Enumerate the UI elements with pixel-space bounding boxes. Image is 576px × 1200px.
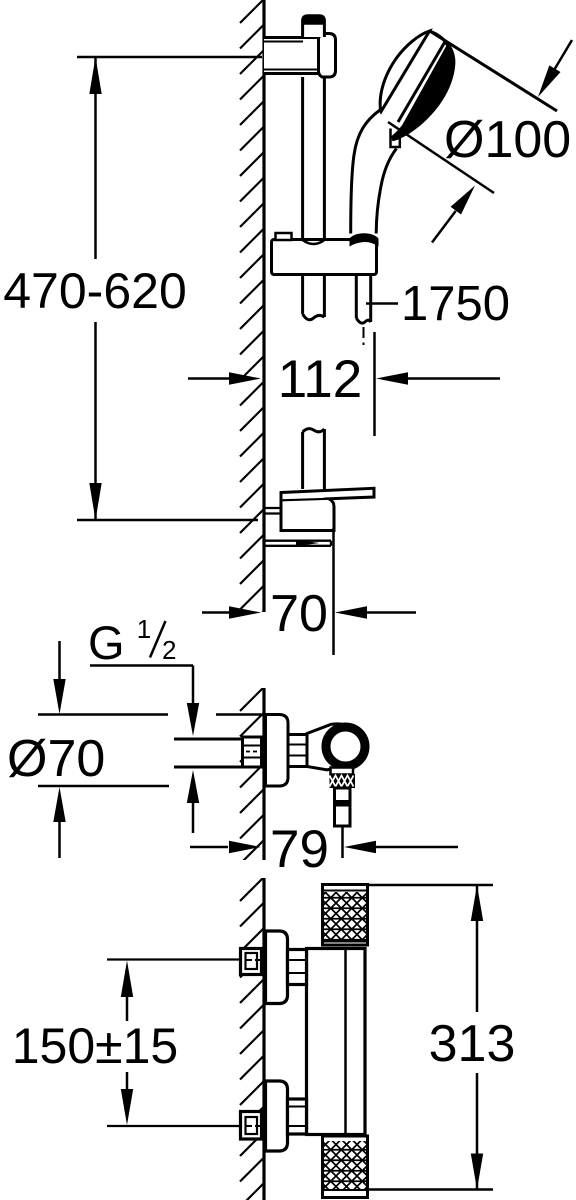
svg-text:1: 1 <box>137 614 151 644</box>
svg-text:70: 70 <box>270 585 328 643</box>
svg-text:1750: 1750 <box>401 277 510 331</box>
svg-text:G: G <box>88 616 125 669</box>
svg-text:Ø70: Ø70 <box>7 730 105 788</box>
svg-text:79: 79 <box>270 820 329 879</box>
svg-text:150±15: 150±15 <box>12 1018 178 1074</box>
svg-text:470-620: 470-620 <box>3 263 187 319</box>
svg-text:2: 2 <box>162 635 176 665</box>
svg-text:Ø100: Ø100 <box>444 111 571 169</box>
svg-text:313: 313 <box>429 1015 516 1073</box>
svg-text:112: 112 <box>278 350 363 409</box>
